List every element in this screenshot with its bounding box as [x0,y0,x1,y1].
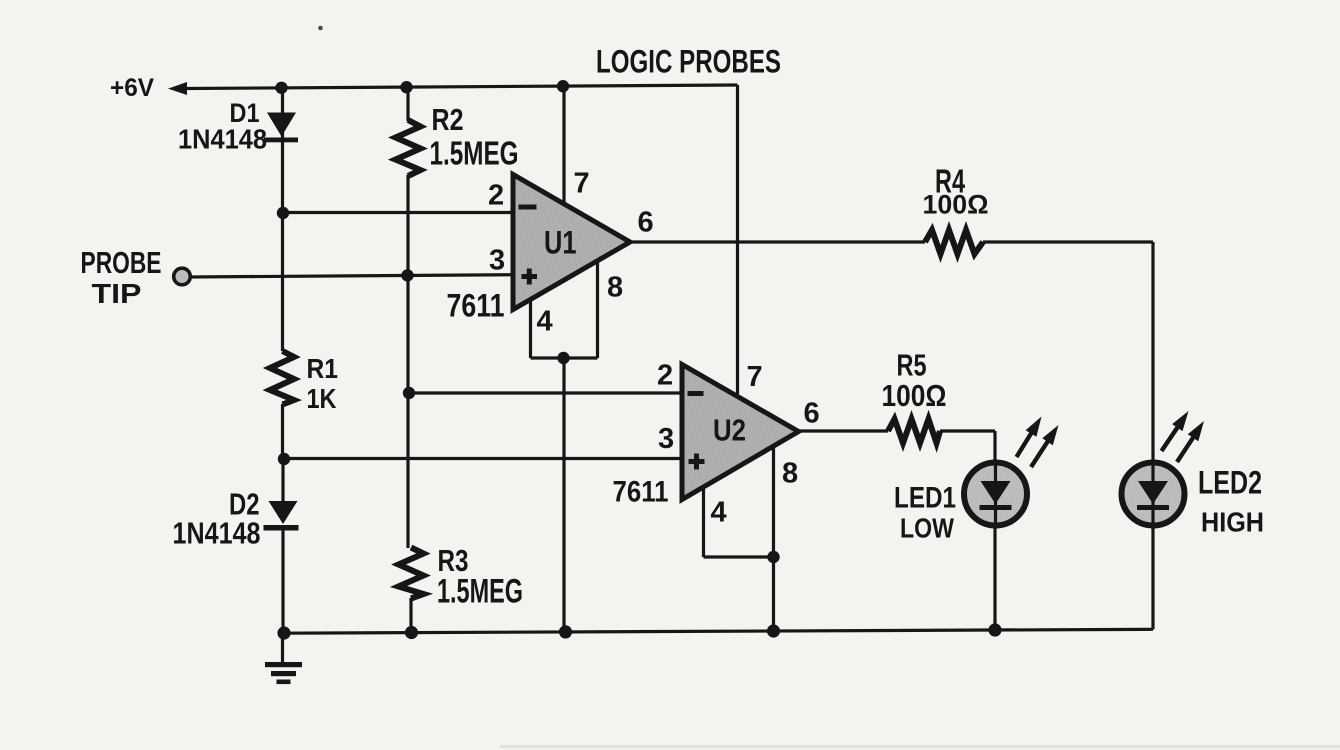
svg-text:6: 6 [804,398,820,430]
svg-text:R2: R2 [432,102,464,137]
svg-text:7611: 7611 [447,288,505,324]
svg-text:7611: 7611 [613,476,669,509]
svg-text:HIGH: HIGH [1201,507,1264,538]
svg-text:R1: R1 [307,353,339,384]
svg-text:1N4148: 1N4148 [173,516,261,551]
svg-text:PROBE: PROBE [81,245,162,280]
svg-text:6: 6 [638,207,654,239]
svg-text:1.5MEG: 1.5MEG [437,573,523,611]
svg-text:LED1: LED1 [894,482,956,515]
svg-text:1N4148: 1N4148 [178,124,267,155]
svg-text:100Ω: 100Ω [923,190,989,220]
svg-text:LOW: LOW [900,513,954,544]
svg-text:3: 3 [658,423,674,455]
svg-text:2: 2 [657,360,673,392]
svg-text:4: 4 [537,306,553,338]
svg-text:U2: U2 [713,413,746,448]
svg-text:7: 7 [747,361,763,393]
svg-text:LED2: LED2 [1198,465,1262,501]
svg-text:2: 2 [488,180,504,212]
svg-text:8: 8 [607,272,623,304]
svg-text:+6V: +6V [110,74,154,102]
svg-text:TIP: TIP [92,278,142,309]
svg-text:1K: 1K [307,383,337,414]
svg-text:7: 7 [574,168,590,200]
svg-text:3: 3 [489,245,505,277]
svg-text:100Ω: 100Ω [882,378,947,413]
svg-text:LOGIC PROBES: LOGIC PROBES [596,44,781,80]
svg-text:U1: U1 [544,225,577,261]
svg-text:1.5MEG: 1.5MEG [430,135,519,172]
svg-text:8: 8 [782,458,798,490]
svg-text:4: 4 [711,497,727,529]
